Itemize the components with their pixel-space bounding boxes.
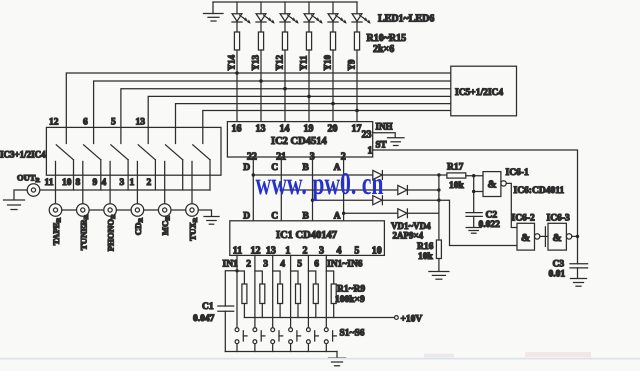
label C1 0.047 (193, 302, 215, 324)
LED LED2 (256, 2, 275, 32)
svg-text:0.022: 0.022 (479, 220, 501, 230)
wire select line Y11 to switch control (148, 96, 451, 143)
wire pull-up jog R5 (308, 271, 315, 284)
svg-text:11: 11 (45, 178, 54, 188)
wire INH to ground (373, 133, 396, 138)
wire top LED supply bus (213, 1, 357, 3)
pushbutton switch S6 (324, 328, 336, 352)
decorative bottom line (0, 358, 640, 360)
svg-text:4: 4 (102, 178, 107, 188)
svg-text:Y12: Y12 (275, 55, 285, 71)
svg-text:R10~R15: R10~R15 (367, 33, 407, 44)
diode VD1 (373, 170, 383, 179)
wire C2 tap (473, 176, 475, 213)
ground C3 (571, 279, 587, 287)
svg-text:1: 1 (285, 246, 290, 257)
pushbutton switch S4 (289, 328, 301, 352)
svg-text:10k: 10k (449, 181, 465, 191)
svg-text:IC6-3: IC6-3 (547, 214, 570, 224)
diode VD4 (398, 209, 408, 218)
analog switch 1 blade (56, 145, 74, 204)
junction node Y11 (307, 95, 311, 99)
svg-text:C1: C1 (202, 302, 214, 312)
svg-text:3: 3 (120, 178, 125, 188)
svg-text:2: 2 (246, 260, 251, 270)
wire A to VD4 (344, 212, 439, 214)
wire pull-up jog R4 (291, 271, 298, 284)
svg-text:D: D (243, 212, 250, 222)
svg-text:Y11: Y11 (299, 55, 309, 71)
svg-text:6: 6 (314, 260, 319, 270)
resistor R10 (234, 32, 239, 122)
svg-text:B: B (303, 212, 310, 222)
svg-text:IC6:CD4011: IC6:CD4011 (514, 186, 565, 196)
pushbutton switch S5 (307, 328, 319, 352)
svg-text:R16: R16 (417, 242, 434, 252)
resistor R14 (330, 32, 335, 122)
svg-text:23: 23 (362, 130, 372, 141)
IC U3 analog switch box IC3+1/2IC4 (46, 127, 221, 175)
analog switch 6 blade (192, 145, 210, 204)
diode VD3 (373, 196, 383, 205)
wire D to VD1 and R17 (253, 174, 447, 176)
resistor R16 (436, 240, 441, 271)
svg-text:1: 1 (368, 146, 373, 157)
wire pull-up jog R2 (255, 271, 262, 284)
junction (437, 188, 440, 191)
wire pull-up jog R1 (237, 271, 244, 284)
junction node Y12 (283, 87, 287, 91)
NAND gate IC6-2 (517, 223, 540, 250)
wire IC6-1 out to IC6-2 in (506, 183, 517, 227)
label C3 0.01 (549, 260, 566, 280)
svg-text:LED1~LED6: LED1~LED6 (378, 14, 434, 25)
wire input column IN3 (272, 255, 274, 327)
svg-text:IC1 CD40147: IC1 CD40147 (276, 230, 337, 241)
wire OUT to ground (14, 190, 27, 200)
wire pull-up jog R3 (273, 271, 280, 284)
wire pull-up jog R6 (326, 271, 333, 284)
capacitor C3 (570, 264, 588, 279)
wire connector link (62, 209, 77, 211)
wire TUX to ground (198, 210, 211, 216)
LED LED5 (328, 2, 347, 32)
svg-text:+10V: +10V (401, 315, 423, 325)
wire IC6-3 out to ST line (572, 235, 578, 237)
capacitor C1 (218, 306, 234, 352)
wire +10V bus (244, 317, 394, 319)
wire bottom ground bus (225, 351, 337, 353)
svg-text:4: 4 (337, 246, 342, 257)
NAND gate IC6-1 (483, 172, 506, 197)
svg-text:1: 1 (130, 178, 135, 188)
svg-text:Y14: Y14 (227, 55, 237, 71)
wire select line Y10 to switch control (176, 104, 451, 144)
wire BCD column A (343, 157, 345, 221)
resistor R2 (260, 284, 265, 318)
svg-text:19: 19 (304, 124, 314, 135)
svg-text:&: & (488, 179, 497, 191)
svg-text:TUNERR: TUNERR (78, 214, 90, 250)
wire BCD column D (252, 157, 254, 221)
resistor R17 (447, 173, 483, 178)
svg-text:0.01: 0.01 (549, 270, 566, 280)
label R1~R9 value (335, 285, 365, 306)
junction (342, 212, 345, 215)
analog switch 3 blade (110, 145, 128, 204)
svg-text:C3: C3 (553, 260, 565, 270)
wire B to VD3 (313, 199, 439, 201)
svg-text:10: 10 (372, 246, 382, 257)
analog switch 5 blade (165, 145, 183, 204)
junction (252, 173, 255, 176)
connector CD_R (131, 204, 144, 217)
svg-text:17: 17 (352, 124, 362, 135)
wire select line Y12 to switch control (121, 89, 451, 144)
junction (311, 199, 314, 202)
wire BCD column B (312, 157, 314, 221)
resistor R15 (354, 32, 359, 122)
connector TAPE_R (49, 204, 62, 217)
svg-text:ST: ST (376, 140, 387, 150)
svg-text:4: 4 (280, 260, 285, 270)
wire connector link (171, 209, 186, 211)
diode VD2 (398, 185, 408, 194)
IC U2 decoder IC2 CD4514 (227, 122, 372, 163)
svg-text:Y9: Y9 (347, 59, 357, 70)
wire C1 branch (225, 271, 237, 306)
label R16 10k (417, 242, 434, 262)
svg-text:S1~S6: S1~S6 (340, 329, 365, 339)
junction (437, 173, 440, 176)
svg-text:R17: R17 (447, 163, 464, 173)
svg-text:IC3+1/2IC4: IC3+1/2IC4 (0, 150, 46, 160)
junction node Y10 (331, 102, 335, 106)
svg-text:Y10: Y10 (323, 55, 333, 71)
svg-text:10: 10 (62, 178, 72, 188)
junction node Y14 (235, 71, 239, 75)
svg-text:2k×6: 2k×6 (373, 44, 394, 55)
svg-text:IN1~IN6: IN1~IN6 (327, 260, 363, 270)
svg-text:20: 20 (328, 124, 338, 135)
wire input column IN1 (236, 255, 238, 327)
resistor R4 (296, 284, 301, 318)
junction (437, 199, 440, 202)
NAND gate IC6-3 tied inputs (545, 223, 571, 250)
ground bottom bus (329, 352, 346, 366)
svg-text:2AP9×4: 2AP9×4 (393, 231, 424, 241)
svg-text:VD1~VD4: VD1~VD4 (391, 221, 431, 231)
wire connector link (89, 209, 104, 211)
resistor R3 (278, 284, 283, 318)
svg-text:13: 13 (136, 118, 146, 128)
svg-text:3: 3 (263, 260, 268, 270)
svg-text:5: 5 (111, 118, 116, 128)
svg-text:&: & (553, 232, 562, 244)
svg-text:C: C (271, 212, 278, 222)
svg-text:A: A (334, 212, 341, 222)
label R10~R15 value (367, 33, 407, 55)
wire IC6-1 lower input tie (474, 191, 483, 193)
wire input column IN5 (307, 255, 309, 327)
svg-text:3: 3 (319, 246, 324, 257)
svg-text:12: 12 (49, 118, 59, 128)
wire select line Y13 to switch control (94, 81, 451, 144)
svg-text:5: 5 (297, 260, 302, 270)
wire select line Y14 to switch control (66, 73, 451, 144)
svg-text:&: & (521, 232, 530, 244)
svg-text:22: 22 (247, 152, 257, 163)
connector MC_R (158, 204, 171, 217)
svg-text:PHONOR: PHONOR (106, 214, 118, 251)
svg-text:9: 9 (93, 178, 98, 188)
resistor R1 (242, 284, 247, 318)
svg-text:R1~R9: R1~R9 (337, 285, 365, 295)
wire select line Y9 to switch control (203, 111, 451, 144)
svg-text:10k: 10k (418, 252, 434, 262)
connector TUX_R (186, 204, 199, 217)
analog switch 4 blade (137, 145, 155, 204)
svg-text:5: 5 (354, 246, 359, 257)
pushbutton switch S2 (253, 328, 265, 352)
junction node Y9 (355, 109, 359, 113)
wire ST line to right side down to C3 (373, 150, 578, 264)
ground top-left of LED bus (204, 2, 224, 21)
svg-text:13: 13 (256, 124, 266, 135)
ground R16 (429, 272, 449, 280)
resistor R5 (313, 284, 318, 318)
IC U1 encoder IC1 CD40147 (230, 221, 385, 257)
label R17 10k (447, 163, 465, 192)
terminal +10V (395, 316, 399, 320)
wire input column IN4 (290, 255, 292, 327)
svg-text:C2: C2 (486, 211, 498, 221)
resistor R6 (331, 284, 336, 318)
svg-text:Y13: Y13 (251, 55, 261, 71)
LED LED4 (304, 2, 323, 32)
resistor R12 (282, 32, 287, 122)
resistor R13 (306, 32, 311, 122)
svg-text:8: 8 (76, 178, 81, 188)
pushbutton switch S1 (235, 328, 247, 352)
svg-text:2: 2 (303, 246, 308, 257)
svg-text:13: 13 (266, 246, 276, 257)
svg-text:www. pw0. cn: www. pw0. cn (256, 167, 384, 202)
LED LED1 (232, 2, 251, 32)
connector OUT_R (27, 184, 40, 197)
wire BCD column C (280, 157, 282, 221)
svg-text:IC2 CD4514: IC2 CD4514 (271, 136, 327, 147)
wire C to VD2 (281, 189, 439, 191)
svg-text:INH: INH (376, 122, 393, 132)
ground C2 (466, 228, 481, 234)
svg-text:IC5+1/2IC4: IC5+1/2IC4 (455, 88, 503, 98)
LED LED3 (280, 2, 299, 32)
connector TUNER_R (77, 204, 90, 217)
svg-text:14: 14 (280, 124, 290, 135)
LED LED6 (352, 2, 371, 32)
pushbutton switch S3 (271, 328, 283, 352)
analog switch 2 blade (83, 145, 101, 204)
wire connector link (144, 209, 159, 211)
svg-text:16: 16 (232, 124, 242, 135)
junction (280, 188, 283, 191)
wire node to IC6-2 lower input (439, 200, 517, 245)
op-amp-driver box IC5 (451, 66, 517, 116)
junction node Y13 (259, 79, 263, 83)
resistor R11 (258, 32, 263, 122)
wire OUT bus (40, 189, 210, 191)
svg-text:IC6-2: IC6-2 (512, 214, 535, 224)
capacitor C2 (466, 213, 482, 228)
wire connector link (116, 209, 131, 211)
label C2 0.022 (479, 211, 501, 231)
label VD1~VD4 2AP9x4 (391, 221, 431, 241)
svg-text:IC6-1: IC6-1 (506, 168, 529, 178)
ground TUX (204, 217, 219, 225)
junction IN1 (235, 269, 238, 272)
ground INH (388, 138, 405, 146)
wire input column IN6 (325, 255, 327, 327)
svg-text:2: 2 (147, 178, 152, 188)
connector PHONO_R (104, 204, 117, 217)
svg-text:D: D (243, 163, 250, 173)
svg-text:0.047: 0.047 (193, 314, 215, 324)
ground OUT (4, 200, 25, 210)
wire IC6-2 out to IC6-3 (540, 235, 548, 237)
wire diode common node down to R16 (438, 175, 440, 240)
svg-text:6: 6 (83, 118, 88, 128)
svg-text:IN1: IN1 (223, 260, 239, 270)
wire input column IN2 (254, 255, 256, 327)
svg-text:100k×9: 100k×9 (335, 295, 365, 305)
